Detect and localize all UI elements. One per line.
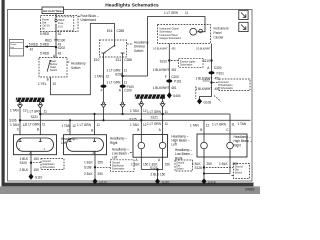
svg-text:Underhood: Underhood: [81, 18, 97, 22]
svg-text:11: 11: [231, 122, 235, 126]
svg-text:Panel: Panel: [214, 31, 222, 35]
svg-text:S210: S210: [160, 59, 168, 63]
svg-text:G103: G103: [204, 100, 212, 104]
svg-text:2 BLK: 2 BLK: [84, 172, 93, 176]
svg-text:1 TAN: 1 TAN: [130, 123, 139, 127]
svg-text:P101: P101: [174, 80, 182, 84]
svg-text:G110: G110: [162, 180, 170, 184]
svg-text:2 BLK: 2 BLK: [151, 173, 160, 177]
svg-text:Schematics: Schematics: [43, 166, 56, 169]
svg-text:Instrument: Instrument: [214, 27, 229, 31]
svg-text:0.5 BLK/WHT: 0.5 BLK/WHT: [196, 47, 211, 50]
svg-text:B: B: [200, 128, 202, 132]
svg-text:C100: C100: [124, 89, 132, 93]
svg-text:1 LT GRN: 1 LT GRN: [107, 80, 122, 84]
svg-text:1 BLK/WHT: 1 BLK/WHT: [153, 68, 170, 72]
svg-text:451: 451: [215, 87, 220, 91]
svg-text:150: 150: [165, 162, 170, 166]
svg-text:11: 11: [42, 122, 46, 126]
svg-text:Right: Right: [110, 141, 117, 145]
svg-text:S210: S210: [203, 59, 211, 63]
svg-text:S108: S108: [84, 166, 92, 170]
svg-text:250: 250: [207, 162, 212, 166]
svg-text:1 TAN: 1 TAN: [130, 109, 139, 113]
svg-text:1 TAN: 1 TAN: [238, 122, 247, 126]
svg-text:12: 12: [72, 124, 76, 128]
svg-text:453: 453: [172, 47, 177, 50]
svg-text:Schematics: Schematics: [180, 64, 193, 67]
svg-text:5 RED: 5 RED: [40, 42, 50, 46]
svg-text:1 LT GRN: 1 LT GRN: [26, 122, 41, 126]
svg-text:Left: Left: [112, 155, 117, 159]
svg-text:1 TAN: 1 TAN: [10, 108, 19, 112]
svg-text:F: F: [101, 89, 103, 93]
svg-text:F: F: [165, 75, 167, 79]
svg-text:11: 11: [124, 68, 128, 72]
svg-text:Gauges Schematics: Gauges Schematics: [160, 37, 182, 40]
svg-text:Left: Left: [172, 143, 177, 147]
svg-text:Switch: Switch: [50, 69, 58, 72]
svg-text:Switch: Switch: [71, 66, 81, 70]
svg-text:B: B: [91, 128, 93, 132]
svg-text:Right: Right: [234, 143, 241, 147]
svg-text:2 BLK: 2 BLK: [20, 168, 29, 172]
svg-text:5 RED: 5 RED: [29, 43, 39, 47]
svg-text:1 BLK: 1 BLK: [84, 161, 93, 165]
svg-text:1 YEL: 1 YEL: [38, 82, 47, 86]
svg-text:C200: C200: [214, 66, 222, 70]
svg-text:12: 12: [106, 74, 110, 78]
svg-text:S121: S121: [151, 115, 159, 119]
svg-text:G110: G110: [35, 176, 43, 180]
svg-text:10: 10: [53, 82, 57, 86]
svg-text:451: 451: [171, 86, 176, 90]
svg-text:B: B: [47, 77, 49, 81]
svg-text:Schematics: Schematics: [221, 87, 234, 90]
svg-text:1 TAN: 1 TAN: [190, 123, 199, 127]
svg-text:S106: S106: [9, 118, 17, 122]
svg-text:451: 451: [171, 68, 176, 72]
svg-text:1 BLK: 1 BLK: [20, 157, 29, 161]
svg-text:Cluster: Cluster: [214, 35, 225, 39]
svg-text:Dist: Dist: [10, 46, 14, 49]
svg-text:P101: P101: [217, 72, 225, 76]
svg-text:11: 11: [124, 80, 128, 84]
svg-text:11: 11: [165, 122, 169, 126]
svg-text:150: 150: [34, 157, 39, 161]
svg-text:C200: C200: [171, 75, 179, 79]
svg-text:34683: 34683: [245, 188, 255, 192]
svg-text:B: B: [37, 128, 39, 132]
svg-text:Headlamp: Headlamp: [71, 61, 86, 65]
svg-text:Schem: Schem: [176, 168, 183, 171]
svg-text:1 LT GRN: 1 LT GRN: [147, 122, 162, 126]
svg-text:42: 42: [58, 51, 62, 55]
svg-text:12: 12: [206, 123, 210, 127]
svg-text:5 RED: 5 RED: [40, 51, 50, 55]
svg-text:S202: S202: [58, 46, 66, 50]
svg-text:E11: E11: [116, 58, 122, 62]
svg-text:42: 42: [58, 32, 62, 36]
svg-text:S121: S121: [31, 115, 39, 119]
svg-text:Schematics: Schematics: [112, 167, 125, 170]
svg-text:S125: S125: [129, 117, 137, 121]
svg-text:1 TAN: 1 TAN: [62, 124, 71, 128]
svg-text:S109: S109: [20, 161, 28, 165]
svg-text:S126: S126: [195, 166, 203, 170]
svg-text:1 LT GRN: 1 LT GRN: [107, 68, 122, 72]
svg-text:150: 150: [143, 162, 148, 166]
svg-text:0.5 BLK/WHT: 0.5 BLK/WHT: [153, 47, 168, 50]
svg-text:42: 42: [30, 47, 34, 51]
svg-text:Switch: Switch: [134, 49, 144, 53]
svg-text:1 BLK: 1 BLK: [219, 162, 228, 166]
svg-text:1 LT GRN: 1 LT GRN: [147, 110, 162, 114]
svg-text:B: B: [137, 128, 139, 132]
svg-text:1 LT GRN: 1 LT GRN: [27, 110, 42, 114]
svg-text:1 BLK: 1 BLK: [131, 162, 140, 166]
svg-text:E16: E16: [107, 29, 113, 33]
svg-text:11: 11: [44, 110, 48, 114]
svg-text:1 TAN: 1 TAN: [94, 74, 103, 78]
svg-text:1 LT GRN: 1 LT GRN: [77, 123, 92, 127]
svg-text:C288: C288: [124, 58, 132, 62]
svg-text:5 RED: 5 RED: [40, 32, 50, 36]
svg-text:250: 250: [98, 161, 103, 165]
svg-text:Schem: Schem: [235, 171, 242, 174]
svg-text:C288: C288: [117, 29, 125, 33]
svg-text:150: 150: [34, 168, 39, 172]
svg-text:1 LT GRN: 1 LT GRN: [164, 11, 179, 15]
svg-text:1 BLK/WHT: 1 BLK/WHT: [153, 86, 170, 90]
svg-text:1 LT GRN: 1 LT GRN: [212, 122, 227, 126]
svg-text:11: 11: [185, 11, 189, 15]
svg-text:Hot At All Times: Hot At All Times: [43, 9, 63, 13]
svg-text:1 BLK/WHT: 1 BLK/WHT: [196, 87, 213, 91]
svg-text:E10: E10: [94, 58, 100, 62]
svg-text:150: 150: [160, 173, 165, 177]
svg-text:11: 11: [165, 110, 169, 114]
svg-text:11: 11: [97, 123, 101, 127]
svg-text:G112: G112: [99, 180, 107, 184]
svg-text:G118: G118: [208, 180, 216, 184]
svg-text:250: 250: [98, 172, 103, 176]
svg-text:Headlights Schematics: Headlights Schematics: [105, 3, 159, 9]
svg-text:G404: G404: [173, 94, 181, 98]
svg-text:1 TAN: 1 TAN: [10, 123, 19, 127]
svg-text:Power: Power: [10, 43, 16, 46]
svg-text:S102: S102: [203, 79, 211, 83]
svg-text:31 A: 31 A: [58, 25, 63, 28]
